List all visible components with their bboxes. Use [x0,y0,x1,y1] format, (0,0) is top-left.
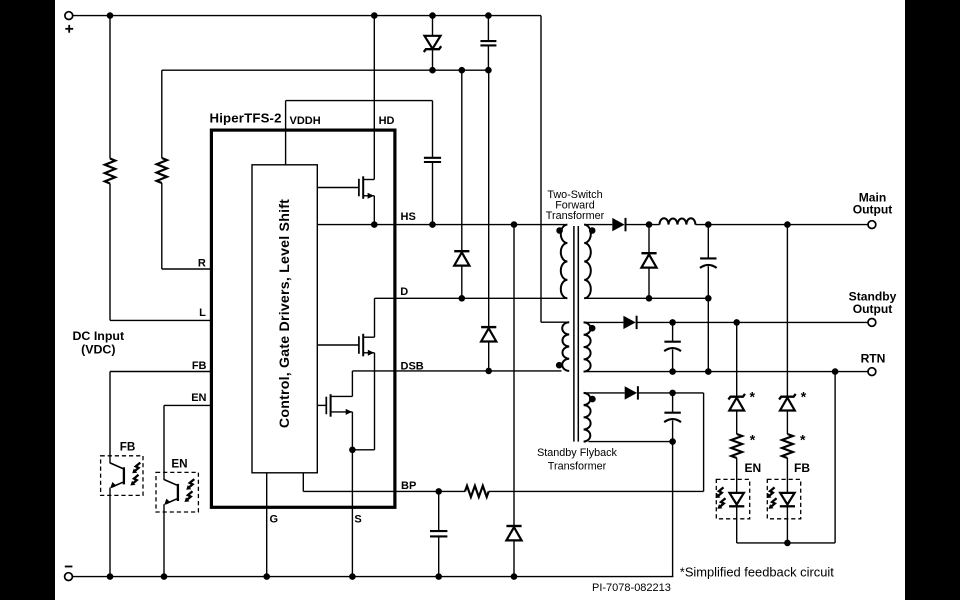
svg-text:*Simplified feedback circuit: *Simplified feedback circuit [680,565,834,580]
wire: FB sense drop [786,225,788,397]
svg-text:Transformer: Transformer [548,461,607,473]
wire: standby winding to diode [584,321,624,323]
mosfet Q2 channel bar [362,334,364,357]
node dot: HS / HD-cap [429,221,436,228]
T2 standby phase dot [589,325,596,332]
node dot: RTN / forward return [705,368,712,375]
svg-text:DSB: DSB [401,361,424,373]
node dot: bias / cap [669,390,676,397]
T2 standby winding [584,322,591,371]
wire: feedback return riser [834,372,836,543]
pin label: BP [401,480,416,492]
wire: top rail drop to primaries x=541 [540,16,542,323]
svg-text:VDDH: VDDH [290,115,321,127]
node dot: bottom / FB opto [107,573,114,580]
mosfet Q1 gate wire [317,187,359,189]
resistor R5 (FB) [782,434,793,458]
wire: bias return [589,441,673,443]
terminal: +DC input [65,12,73,20]
mosfet Q2 source stub [363,350,374,356]
opto LED box (EN) [716,479,749,518]
node dot: bus70 / zener bottom [429,67,436,74]
capacitor C4 (standby output) [664,322,681,371]
T1 secondary phase dot [589,227,596,234]
node dot: S junction [349,447,356,454]
node dot: HS / snubber line [511,221,518,228]
node dot: main / FB sense [784,221,791,228]
mosfet Q3 gate bar [325,397,327,415]
node dot: bottom / S pin [349,573,356,580]
opto transistor (FB) [110,463,124,488]
svg-text:Output: Output [853,203,893,217]
terminal: Standby Output [868,319,876,327]
label: Two-Switch Forward Transformer [546,189,605,222]
label: RTN [861,352,886,366]
node dot: bus70 / clamp diode D [459,67,466,74]
mosfet Q2 source line [352,353,374,450]
clamp diode D1 (to D node) [454,70,469,298]
asterisk: R5 [800,432,806,448]
svg-text:FB: FB [794,461,810,475]
pin wire: HD vertical [373,16,375,180]
T2 bias winding [584,393,591,442]
terminal: -DC input [65,573,73,581]
wire: standby to terminal [637,321,868,323]
node dot: top rail / HD line [371,12,378,19]
label: Main Output [853,190,893,216]
wire: FB opto collector drop [109,372,111,464]
svg-text:*: * [800,432,806,448]
T1 primary phase dot [556,227,563,234]
wire: +DC top rail [73,15,541,17]
svg-text:(VDC): (VDC) [81,343,115,357]
node dot: RTN / feedback return [832,368,839,375]
svg-text:FB: FB [192,360,207,372]
pin wire: VDDH [285,101,287,165]
wire: EN opto emitter to bottom [163,504,165,576]
pin label: FB [192,360,207,372]
pin label: DSB [401,361,424,373]
mosfet Q3 source stub [331,409,353,415]
wire: inductor to main terminal [695,224,868,226]
node dot: RTN / standby cap [669,368,676,375]
svg-text:RTN: RTN [861,352,886,366]
svg-text:HiperTFS-2: HiperTFS-2 [210,111,282,126]
light arrows (EN LED) [715,487,725,509]
node dot: standby / EN sense [733,319,740,326]
node dot: top rail / left resistor [107,12,114,19]
svg-text:EN: EN [191,392,206,404]
pin label: L [199,307,206,319]
mosfet Q1 gate bar [358,179,360,197]
node dot: bottom / G pin [263,573,270,580]
wire: R5 to LED [786,458,788,493]
node dot: bus70 / cap C1 bottom [485,67,492,74]
zener diode VR2 (EN) [728,394,745,434]
inductor L1 [660,218,696,224]
wire: line-sense bus y=70 [162,69,489,71]
svg-text:*: * [750,432,756,448]
node dot: BP / bypass cap [435,488,442,495]
opto transistor (EN) [164,480,178,505]
wire: rectifier to inductor [626,224,659,226]
pin label: VDDH [290,115,321,127]
pin wire: FB to opto [110,371,211,373]
wire: BP to bias supply [489,490,704,492]
pin label: D [400,286,408,298]
node dot: bottom / BP cap [435,573,442,580]
pin label: HD [379,115,395,127]
wire: R pin wire [162,268,211,270]
opto transistor box (FB) [101,456,143,496]
wire: secondary to rectifier [584,224,612,226]
opto LED (EN) [729,493,744,506]
node dot: HS / Q1 source [371,221,378,228]
wire: feedback bottom bus [737,542,835,544]
light arrows (FB LED) [767,487,777,509]
wire: R4 to LED [736,458,738,493]
svg-text:Transformer: Transformer [546,210,605,222]
svg-text:L: L [199,307,206,319]
node dot: DSB / clamp diode [485,368,492,375]
label: HiperTFS-2 [210,111,282,126]
left black matte bar [0,0,55,600]
mosfet Q2 gate wire [317,344,359,346]
svg-text:*: * [750,389,756,405]
svg-text:HS: HS [401,211,416,223]
wire: L pin wire [110,319,211,321]
pin wire: D [375,297,567,299]
light arrows (FB opto) [130,463,140,486]
label: FB (feedback) [794,461,810,475]
rectifier diode D4 (main) [612,218,625,231]
right black matte bar [905,0,960,600]
note: simplified feedback circuit [680,565,834,580]
label: EN (opto) [171,457,187,470]
mosfet Q1 source line [373,196,375,225]
label: EN (feedback) [745,461,762,475]
pin wire: EN to opto [164,404,211,406]
svg-text:EN: EN [171,457,187,470]
symbol: minus sign [65,566,73,568]
zener diode VR1 (line OV) [424,16,441,71]
freewheel diode D5 [641,225,656,299]
svg-text:G: G [270,513,279,525]
IC U1 HiperTFS-2 outline [211,130,395,507]
node dot: top rail / cap C1 [485,12,492,19]
wire: bias return drop to bottom rail [672,442,674,577]
mosfet Q3 channel bar [330,394,332,417]
rectifier diode D6 (standby) [623,316,636,329]
capacitor C6 (BP bypass) [430,491,447,576]
asterisk: R4 [750,432,756,448]
node dot: return / cap [705,295,712,302]
mosfet Q1 drain stub [363,179,374,181]
mosfet Q3 source line [351,412,353,450]
label: DC Input (VDC) [72,329,124,357]
mosfet Q3 gate wire [317,404,326,406]
wire: FB LED to bottom [786,506,788,543]
opto transistor box (EN) [156,472,198,512]
node dot: standby / cap [669,319,676,326]
symbol: plus sign [65,25,73,33]
wire: -DC bottom rail [73,576,674,578]
inner box: Control, Gate Drivers, Level Shift [252,165,317,473]
T1 secondary winding [584,225,591,299]
mosfet Q3 drain stub [331,371,353,397]
T2 primary phase dot [556,362,563,369]
node dot: return / freewheel [646,295,653,302]
wire: forward return drop to RTN [707,298,709,371]
wire: left rail x=110 (+ to L pin) [109,16,111,321]
svg-text:R: R [198,258,206,270]
svg-text:*: * [801,389,807,405]
label: Standby Output [849,290,897,317]
pin label: EN [191,392,206,404]
svg-text:HD: HD [379,115,395,127]
wire: bias to BP drop [703,393,705,492]
mosfet Q2 drain stub [363,298,374,337]
node dot: top rail / zener [429,12,436,19]
wire: bias winding to diode [584,392,625,394]
label: Standby Flyback Transformer [537,447,617,473]
asterisk: VR2 [750,389,756,405]
svg-text:FB: FB [120,440,136,453]
svg-text:Control, Gate Drivers, Level S: Control, Gate Drivers, Level Shift [277,199,293,428]
wire: forward return [584,297,708,299]
wire: R rail x=162 [161,70,163,269]
svg-text:Output: Output [853,302,893,316]
zener diode VR3 (FB) [779,394,796,434]
capacitor C2 (HD-HS) [424,101,441,225]
wire: EN opto collector drop [163,405,165,480]
svg-text:PI-7078-082213: PI-7078-082213 [592,582,671,594]
wire: bias diode to corner [639,392,704,394]
opto LED (FB) [780,493,795,506]
pin label: R [198,258,206,270]
label: Control, Gate Drivers, Level Shift (rotated) [277,199,293,428]
pin wire: HS [317,224,565,226]
light arrows (EN opto) [184,479,194,502]
mosfet Q1 channel bar [362,176,364,199]
label: FB (opto) [120,440,136,453]
terminal: RTN [868,368,876,376]
T1 primary winding [561,225,568,299]
node dot: bottom / EN opto [161,573,168,580]
clamp diode D2 (to DSB node) [481,70,496,371]
resistor R3 (BP) [465,486,489,497]
transformer T1 core [574,226,578,442]
svg-text:DC Input: DC Input [72,329,124,343]
wire: flyback primary top lead [541,321,567,323]
capacitor C1 (line sense) [480,16,496,71]
resistor R2 (R pin) [157,158,167,183]
wire: EN sense drop [736,322,738,396]
svg-text:Standby Flyback: Standby Flyback [537,447,617,459]
svg-text:BP: BP [401,480,416,492]
node dot: feedback bus / FB LED [784,540,791,547]
pin label: S [354,513,361,525]
rectifier diode D7 (bias) [625,386,638,399]
node dot: bottom / snubber diode [511,573,518,580]
wire: EN LED to bottom [736,506,738,543]
svg-text:S: S [354,513,361,525]
node dot: freewheel top [646,221,653,228]
pin wire: BP [303,473,465,492]
pin wire: S vertical [351,450,353,577]
capacitor C5 (bias) [664,393,681,442]
pin label: HS [401,211,416,223]
resistor R4 (EN) [731,434,742,458]
terminal: Main Output [868,221,876,229]
capacitor C3 (main output) [700,225,717,299]
resistor R1 (line sense upper) [105,159,115,184]
mosfet Q1 source stub [363,193,374,199]
svg-text:EN: EN [745,461,762,475]
mosfet Q2 gate bar [358,336,360,354]
svg-text:D: D [400,286,408,298]
wire: FB opto emitter to bottom [109,488,111,577]
T2 primary winding [562,322,569,371]
snubber line + diode D3 [506,225,521,577]
asterisk: VR3 [801,389,807,405]
wire: VDDH to HD-cap link [286,100,433,102]
node dot: bias return / cap bottom [669,438,676,445]
opto LED box (FB) [767,479,800,518]
pin wire: DSB [352,370,561,372]
wire: RTN rail [584,371,869,373]
node dot: main / output cap [705,221,712,228]
pin label: G [270,513,279,525]
T2 bias phase dot [589,396,596,403]
pin wire: G vertical [266,473,268,577]
label: PI-7078-082213 [592,582,671,594]
node dot: D wire / clamp diode [459,295,466,302]
